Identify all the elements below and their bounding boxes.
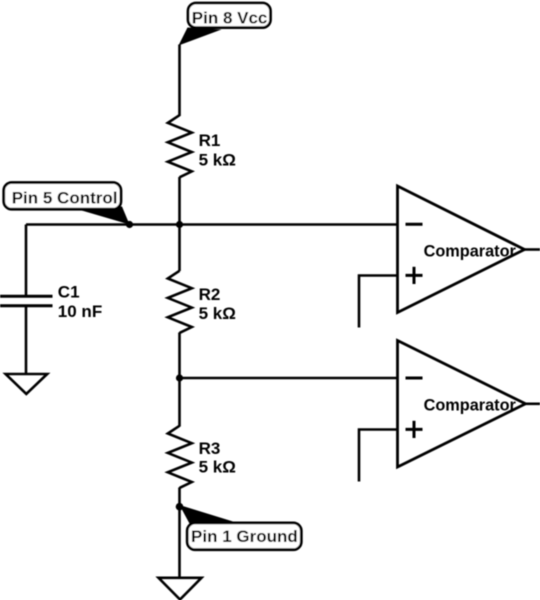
node B junction dot — [176, 374, 183, 381]
node A junction dot — [176, 221, 183, 228]
wire U2 plus input stub — [359, 430, 398, 482]
op-amp U2 comparator 2 — [398, 341, 526, 468]
pin minus U1 — [406, 223, 423, 226]
svg-text:Pin 5 Control: Pin 5 Control — [12, 188, 118, 207]
node Pin 8 Vcc callout — [179, 3, 271, 46]
svg-text:5 kΩ: 5 kΩ — [199, 304, 236, 323]
wire U1 output — [525, 248, 540, 251]
svg-text:R1: R1 — [199, 131, 221, 150]
node control junction dot — [126, 221, 133, 228]
pin minus U2 — [406, 377, 423, 380]
svg-text:R2: R2 — [199, 285, 221, 304]
wire node B horizontal — [180, 377, 398, 380]
svg-text:Pin 8 Vcc: Pin 8 Vcc — [192, 8, 268, 27]
wire U1 plus input stub — [359, 276, 398, 328]
pin plus U2 — [406, 421, 423, 438]
svg-text:5 kΩ: 5 kΩ — [199, 458, 236, 477]
pin plus U1 — [406, 267, 423, 284]
wire R2 to node B — [178, 333, 181, 427]
svg-text:Pin 1 Ground: Pin 1 Ground — [191, 527, 298, 546]
resistor R2 — [168, 271, 236, 333]
svg-text:5 kΩ: 5 kΩ — [199, 151, 236, 170]
wire R1 to node A — [178, 177, 181, 271]
capacitor C1 — [0, 283, 102, 322]
svg-text:R3: R3 — [199, 439, 221, 458]
svg-text:C1: C1 — [58, 283, 80, 302]
svg-text:Comparator: Comparator — [424, 397, 517, 415]
node Pin 1 Ground callout — [180, 505, 302, 550]
op-amp U1 comparator 1 — [398, 186, 525, 313]
ground C1 — [6, 374, 48, 394]
resistor R3 — [168, 426, 236, 488]
ground main — [159, 578, 202, 600]
wire C1 to ground — [25, 306, 28, 375]
wire control horizontal — [26, 223, 398, 226]
node ground junction dot — [176, 503, 184, 511]
resistor R1 — [168, 115, 236, 177]
svg-text:10 nF: 10 nF — [58, 302, 102, 321]
wire control to C1 — [25, 225, 28, 297]
svg-text:Comparator: Comparator — [424, 242, 517, 260]
wire Vcc top vertical — [178, 45, 181, 117]
wire U2 output — [526, 402, 540, 405]
wire R3 to ground — [178, 488, 181, 579]
node Pin 5 Control callout — [4, 183, 130, 225]
